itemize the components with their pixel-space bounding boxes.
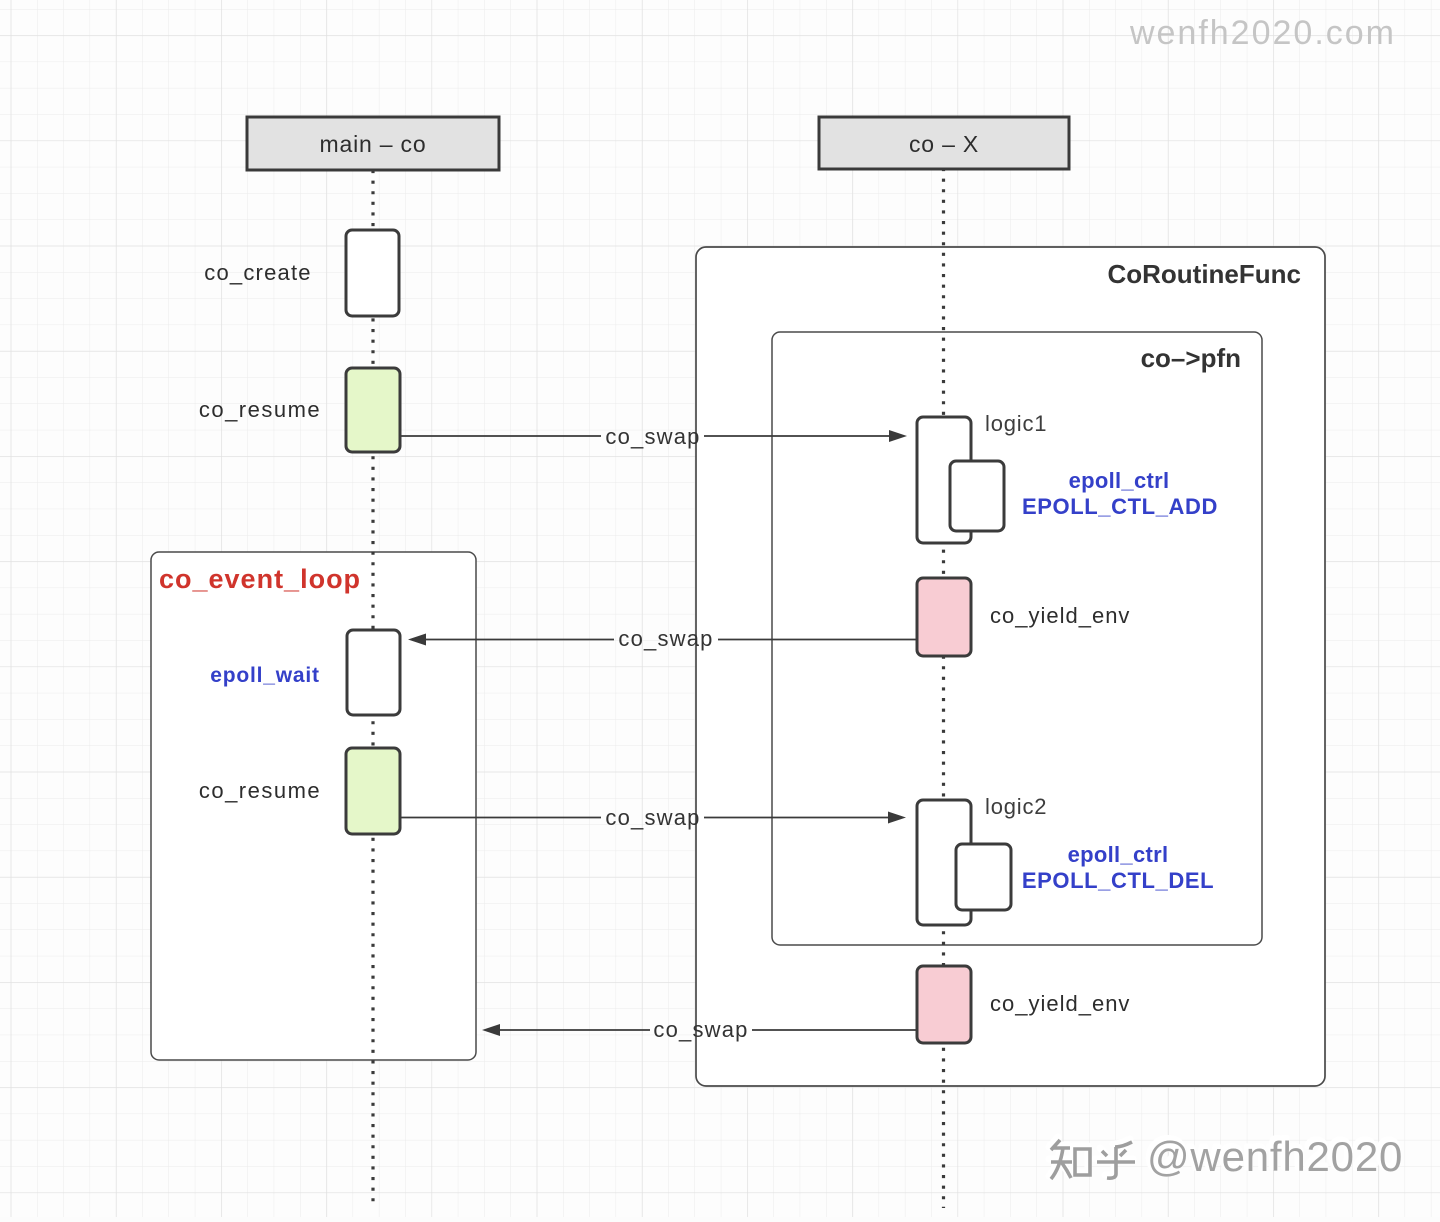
activation co_create	[346, 230, 399, 316]
svg-text:logic1: logic1	[985, 411, 1047, 436]
arrow co_swap 3 (right)	[400, 817, 890, 819]
svg-text:epoll_ctrl: epoll_ctrl	[1068, 842, 1169, 867]
svg-text:co_resume: co_resume	[199, 397, 321, 422]
svg-text:co_swap: co_swap	[653, 1017, 748, 1042]
svg-text:co_swap: co_swap	[618, 626, 713, 651]
lifeline main-co	[371, 170, 374, 1206]
svg-text:wenfh2020.com: wenfh2020.com	[1129, 14, 1396, 52]
activation logic2	[917, 800, 971, 925]
activation co_resume 1 (green)	[346, 368, 400, 452]
header co - X	[819, 117, 1069, 169]
arrow co_swap 4 (left)	[499, 1029, 917, 1031]
svg-text:EPOLL_CTL_ADD: EPOLL_CTL_ADD	[1022, 494, 1218, 519]
svg-text:co–>pfn: co–>pfn	[1141, 343, 1241, 373]
svg-text:@wenfh2020: @wenfh2020	[1147, 1133, 1403, 1180]
svg-text:logic2: logic2	[985, 794, 1047, 819]
svg-text:co_yield_env: co_yield_env	[990, 603, 1130, 628]
svg-text:co_swap: co_swap	[605, 805, 700, 830]
svg-text:co_event_loop: co_event_loop	[159, 564, 361, 594]
activation logic2 inner	[956, 844, 1011, 910]
activation co_yield_env 2 (pink)	[917, 966, 971, 1043]
svg-text:co_resume: co_resume	[199, 778, 321, 803]
lifeline co-X	[942, 168, 945, 1208]
svg-text:CoRoutineFunc: CoRoutineFunc	[1107, 259, 1301, 289]
arrow co_swap 2 (left)	[425, 639, 917, 641]
activation co_resume 2 (green)	[346, 748, 400, 834]
svg-text:main – co: main – co	[320, 131, 427, 157]
activation epoll_wait	[347, 630, 400, 715]
activation co_yield_env 1 (pink)	[917, 578, 971, 656]
svg-text:EPOLL_CTL_DEL: EPOLL_CTL_DEL	[1022, 868, 1214, 893]
activation logic1	[917, 417, 971, 543]
svg-text:epoll_ctrl: epoll_ctrl	[1069, 468, 1170, 493]
svg-text:co_yield_env: co_yield_env	[990, 991, 1130, 1016]
activation logic1 inner	[950, 461, 1004, 531]
svg-text:co – X: co – X	[909, 131, 979, 157]
svg-text:co_create: co_create	[204, 260, 311, 285]
header main - co	[247, 117, 499, 170]
arrow co_swap 1 (right)	[400, 435, 891, 437]
frame CoRoutineFunc	[696, 247, 1325, 1086]
svg-text:epoll_wait: epoll_wait	[210, 664, 320, 687]
frame co_event_loop	[151, 552, 476, 1060]
frame co->pfn	[772, 332, 1262, 945]
svg-text:co_swap: co_swap	[605, 424, 700, 449]
watermark zhihu @wenfh2020	[1049, 1130, 1403, 1180]
